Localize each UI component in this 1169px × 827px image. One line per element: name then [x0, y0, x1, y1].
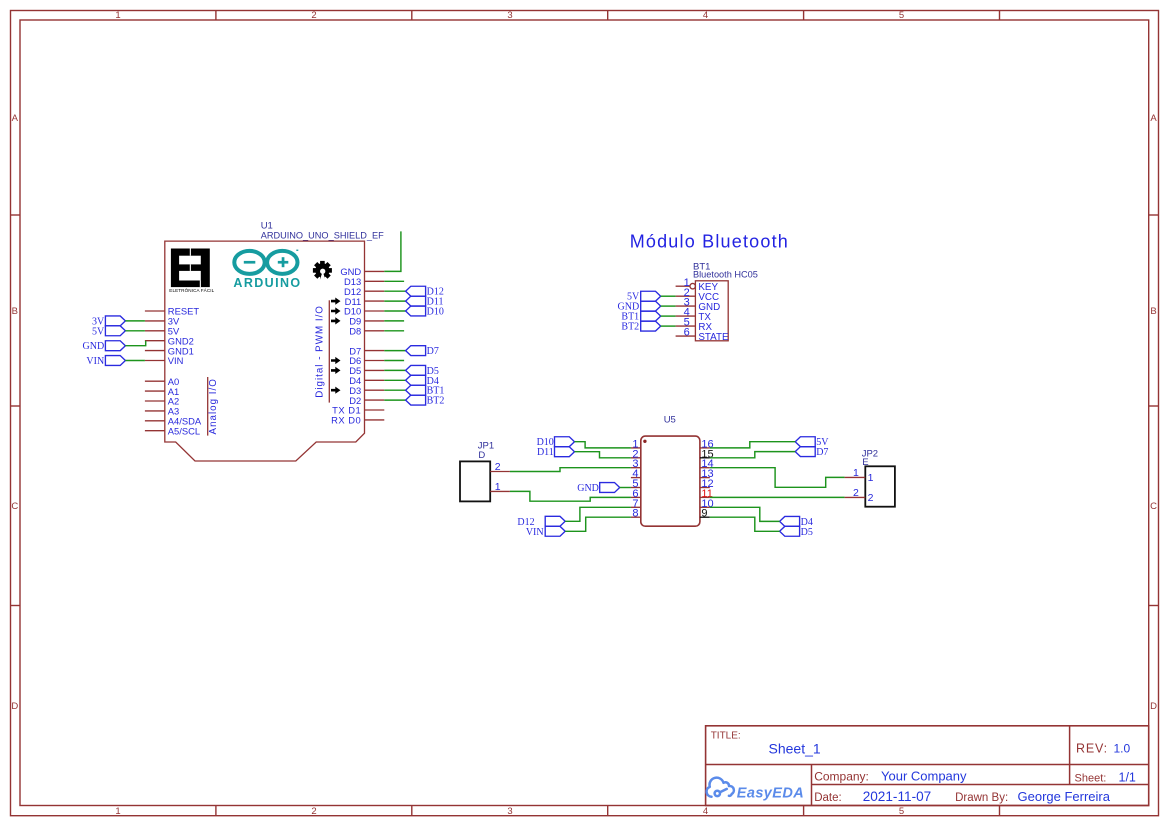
U1 Arduino logo	[234, 251, 264, 274]
U1 pin D13	[365, 280, 385, 282]
U5 pin 9	[700, 516, 710, 518]
svg-text:6: 6	[684, 327, 690, 339]
BT1 pin 2 VCC	[676, 295, 696, 297]
wire U1 D2	[384, 399, 405, 401]
wire BT2 to BT1	[661, 325, 676, 327]
U1 pin A5/SCL	[145, 430, 165, 432]
U1 pin D5	[365, 369, 385, 371]
svg-text:5: 5	[899, 10, 904, 21]
port BT2 (BT1)	[641, 321, 661, 331]
wire JP1 pin2 to U5 pin3	[510, 468, 631, 472]
svg-text:ARDUINO: ARDUINO	[233, 276, 301, 290]
port BT1 (U1 right)	[406, 385, 426, 395]
svg-text:9: 9	[701, 508, 707, 520]
BT1 pin 5 RX	[676, 325, 696, 327]
U1 pin A4/SDA	[145, 420, 165, 422]
wire VIN to U5 pin8	[565, 517, 631, 531]
wire U1 D9 stub	[384, 320, 404, 322]
PWM arrow	[331, 317, 341, 324]
svg-text:RX D0: RX D0	[331, 415, 361, 426]
port 5V (BT1)	[641, 291, 661, 301]
port GND (U1 left)	[105, 341, 125, 351]
svg-text:B: B	[1150, 306, 1156, 317]
U1 pin GND2	[145, 340, 165, 342]
wire U5 pin15 to D7	[710, 452, 795, 458]
port D5 (U1 right)	[406, 365, 426, 375]
svg-text:D7: D7	[427, 346, 439, 357]
svg-text:1/1: 1/1	[1119, 770, 1136, 784]
U5 pin 7	[631, 506, 641, 508]
U1 pin GND1	[145, 350, 165, 352]
svg-text:A: A	[12, 113, 19, 124]
U5 body	[641, 436, 700, 526]
port VIN (U5)	[545, 526, 565, 536]
svg-text:Drawn By:: Drawn By:	[955, 792, 1008, 804]
wire BT1 to BT1	[661, 315, 676, 317]
svg-text:3: 3	[507, 806, 512, 817]
U1 pin A0	[145, 380, 165, 382]
U5 pin 8	[631, 516, 641, 518]
port D12 (U5)	[545, 516, 565, 526]
wire U1 D8 stub	[384, 330, 404, 332]
wire U1 D13 stub	[384, 280, 404, 282]
svg-text:Bluetooth HC05: Bluetooth HC05	[693, 269, 758, 279]
svg-text:Sheet:: Sheet:	[1075, 772, 1107, 784]
port D10 (U5)	[555, 437, 575, 447]
wire U1 D7	[384, 350, 405, 352]
EasyEDA logo	[707, 778, 734, 797]
JP1 pin 1	[490, 490, 510, 492]
U1 pin D8	[365, 330, 385, 332]
U1 body outline	[165, 241, 365, 461]
svg-text:Módulo Bluetooth: Módulo Bluetooth	[630, 232, 789, 252]
port D4 (U1 right)	[406, 375, 426, 385]
wire D12 to U5 pin7	[565, 507, 631, 521]
port D7 (U5)	[795, 447, 815, 457]
U5 pin 11	[700, 496, 710, 498]
U1 pin A3	[145, 410, 165, 412]
svg-text:D: D	[478, 450, 485, 461]
svg-text:D7: D7	[816, 447, 828, 458]
wire U5 pin16 to 5V	[710, 442, 795, 448]
PWM arrow	[331, 367, 341, 374]
wire D11 to U5 pin2	[575, 452, 631, 458]
JP1 body	[460, 461, 490, 501]
svg-text:B: B	[12, 306, 18, 317]
U5 pin 12	[700, 487, 710, 489]
svg-text:A: A	[1150, 113, 1157, 124]
wire U1 D6 stub	[384, 360, 404, 362]
svg-text:2: 2	[311, 10, 316, 21]
svg-text:1: 1	[853, 467, 859, 479]
BT1 pin 1 KEY	[676, 285, 690, 287]
PWM arrow	[331, 387, 341, 394]
svg-text:8: 8	[632, 508, 638, 520]
port D4 (U5)	[780, 516, 800, 526]
U1 pin GND	[365, 270, 385, 272]
svg-text:VIN: VIN	[86, 356, 104, 367]
U5 pin 3	[631, 467, 641, 469]
wire U1 D12	[384, 290, 405, 292]
svg-text:1: 1	[115, 806, 120, 817]
wire 5V to BT1	[661, 295, 676, 297]
wire U1 GND up	[384, 231, 401, 271]
JP2 pin 1	[845, 476, 866, 478]
U1 pin 3V	[145, 320, 165, 322]
svg-text:D10: D10	[427, 307, 444, 318]
PWM arrow	[331, 298, 341, 305]
U1 pin D2	[365, 399, 385, 401]
svg-text:Analog I/O: Analog I/O	[208, 378, 219, 434]
BT1 pin 3 GND	[676, 305, 696, 307]
U1 Eletronica Facil logo	[171, 249, 210, 288]
U1 pin RESET	[145, 310, 165, 312]
BT1 pin 4 TX	[676, 315, 696, 317]
U5 pin 2	[631, 457, 641, 459]
svg-text:A5/SCL: A5/SCL	[168, 425, 200, 436]
wire U1 D10	[384, 310, 405, 312]
wire VIN to U1	[125, 360, 144, 362]
U1 pin D12	[365, 290, 385, 292]
svg-text:5V: 5V	[92, 326, 105, 337]
port GND (BT1)	[641, 301, 661, 311]
U5 pin1 dot	[643, 440, 646, 443]
svg-text:U5: U5	[664, 415, 676, 426]
wire U1 D5	[384, 369, 405, 371]
JP2 body	[865, 466, 895, 506]
svg-text:Date:: Date:	[814, 792, 842, 804]
svg-text:4: 4	[703, 806, 708, 817]
svg-text:GND: GND	[577, 483, 599, 494]
wire U1 D4	[384, 379, 405, 381]
wire U5 pin11 to JP2 pin2	[710, 496, 845, 498]
title block frame	[706, 726, 1149, 806]
U1 pin VIN	[145, 360, 165, 362]
U5 pin 5	[631, 487, 641, 489]
wire U5 pin9 to D5	[710, 517, 780, 531]
svg-text:ELETRÔNICA FÁCIL: ELETRÔNICA FÁCIL	[169, 287, 214, 293]
svg-text:1: 1	[495, 481, 501, 493]
svg-text:2: 2	[311, 806, 316, 817]
port D11 (U1 right)	[406, 296, 426, 306]
wire U5 pin14 to JP2 pin1	[710, 468, 845, 488]
U5 pin 4	[631, 477, 641, 479]
BT1 body	[695, 281, 728, 341]
svg-text:1: 1	[115, 10, 120, 21]
port D12 (U1 right)	[406, 286, 426, 296]
svg-text:D11: D11	[537, 447, 554, 458]
wire U5 pin10 to D4	[710, 507, 780, 521]
svg-text:4: 4	[703, 10, 708, 21]
U1 gear icon	[313, 261, 332, 280]
wire U1 D11	[384, 300, 405, 302]
svg-text:EasyEDA: EasyEDA	[737, 786, 804, 802]
U5 pin 6	[631, 496, 641, 498]
U1 pin D9	[365, 320, 385, 322]
wire JP1 pin1 to U5 pin6	[510, 491, 631, 501]
svg-text:George Ferreira: George Ferreira	[1018, 789, 1111, 804]
U5 pin 13	[700, 477, 710, 479]
svg-text:2: 2	[868, 492, 874, 504]
svg-text:Company:: Company:	[814, 770, 869, 784]
svg-text:2: 2	[853, 487, 859, 499]
svg-text:Sheet_1: Sheet_1	[769, 741, 821, 757]
port VIN (U1 left)	[105, 356, 125, 366]
svg-text:1: 1	[868, 472, 874, 484]
U5 pin 1	[631, 447, 641, 449]
svg-text:3: 3	[507, 10, 512, 21]
U1 pin D6	[365, 360, 385, 362]
port GND (U5)	[600, 483, 620, 493]
svg-text:C: C	[1150, 501, 1157, 512]
PWM arrow	[331, 307, 341, 314]
svg-text:D: D	[1150, 701, 1157, 712]
wire U1 D3	[384, 389, 405, 391]
BT1 pin 6 STATE	[676, 335, 696, 337]
U5 pin 10	[700, 506, 710, 508]
U5 pin 15	[700, 457, 710, 459]
svg-text:Digital - PWM I/O: Digital - PWM I/O	[315, 305, 326, 398]
port D11 (U5)	[555, 447, 575, 457]
JP1 pin 2	[490, 471, 510, 473]
U1 pin D4	[365, 379, 385, 381]
svg-text:D8: D8	[349, 326, 361, 337]
U1 pin 5V	[145, 330, 165, 332]
U1 pin D11	[365, 300, 385, 302]
wire GND to U5 pin5	[620, 487, 631, 489]
svg-text:GND: GND	[83, 341, 105, 352]
port D5 (U5)	[780, 526, 800, 536]
svg-text:Your Company: Your Company	[881, 769, 967, 784]
PWM arrow	[331, 357, 341, 364]
port 5V (U1 left)	[105, 326, 125, 336]
svg-text:1.0: 1.0	[1114, 742, 1131, 756]
port 3V (U1 left)	[105, 316, 125, 326]
svg-text:2: 2	[495, 461, 501, 473]
port D10 (U1 right)	[406, 306, 426, 316]
U1 pin TX D1	[365, 409, 385, 411]
svg-text:VIN: VIN	[168, 355, 184, 366]
svg-text:VIN: VIN	[526, 527, 544, 538]
svg-text:TITLE:: TITLE:	[711, 731, 741, 742]
wire 3V to U1	[125, 320, 144, 322]
U1 pin A1	[145, 390, 165, 392]
U5 pin 14	[700, 467, 710, 469]
port BT2 (U1 right)	[406, 395, 426, 405]
svg-text:STATE: STATE	[698, 332, 729, 343]
wire D10 to U5 pin1	[575, 442, 631, 448]
port 5V (U5)	[795, 437, 815, 447]
wire GND to U1 GND2	[125, 341, 145, 346]
svg-text:2021-11-07: 2021-11-07	[863, 789, 932, 804]
port BT1 (BT1)	[641, 311, 661, 321]
svg-text:5: 5	[899, 806, 904, 817]
wire GND to BT1	[661, 305, 676, 307]
JP2 pin 2	[845, 496, 866, 498]
U1 pin A2	[145, 400, 165, 402]
U1 pin D7	[365, 350, 385, 352]
U1 pin D10	[365, 310, 385, 312]
svg-text:REV:: REV:	[1076, 742, 1108, 756]
svg-text:D5: D5	[801, 527, 813, 538]
svg-text:D: D	[11, 701, 18, 712]
svg-text:C: C	[11, 501, 18, 512]
U5 pin 16	[700, 447, 710, 449]
U1 pin RX D0	[365, 419, 385, 421]
svg-text:ARDUINO_UNO_SHIELD_EF: ARDUINO_UNO_SHIELD_EF	[261, 231, 384, 241]
wire 5V to U1	[125, 330, 144, 332]
svg-text:BT2: BT2	[621, 322, 639, 333]
svg-text:BT2: BT2	[427, 396, 445, 407]
port D7 (U1 right)	[406, 346, 426, 356]
U1 pin D3	[365, 389, 385, 391]
